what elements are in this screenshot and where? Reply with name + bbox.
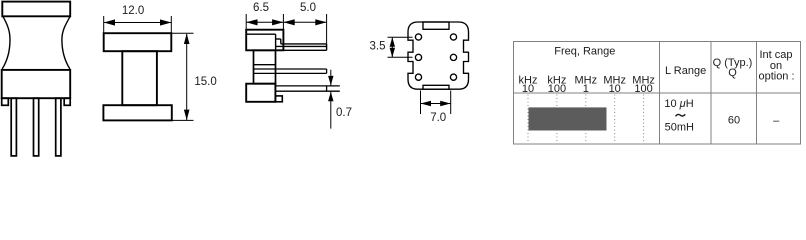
svg-text:option :: option : [758,71,794,83]
svg-text:1: 1 [583,83,589,95]
svg-text:0.7: 0.7 [336,107,352,119]
svg-text:100: 100 [548,83,566,95]
svg-text:10 μH: 10 μH [664,98,693,110]
svg-text:L Range: L Range [665,65,706,77]
svg-text:10: 10 [522,83,534,95]
svg-text:12.0: 12.0 [122,5,144,17]
svg-text:15.0: 15.0 [194,76,216,88]
svg-text:3.5: 3.5 [370,40,386,52]
svg-text:Freq, Range: Freq, Range [554,45,615,57]
svg-text:10: 10 [609,83,621,95]
svg-text:50mH: 50mH [665,122,694,134]
svg-text:Q: Q [728,67,737,79]
svg-text:100: 100 [634,83,652,95]
svg-text:6.5: 6.5 [253,2,269,14]
svg-text:60: 60 [728,114,740,126]
svg-text:7.0: 7.0 [430,112,446,124]
svg-text:–: – [773,115,780,127]
svg-text:5.0: 5.0 [300,2,316,14]
